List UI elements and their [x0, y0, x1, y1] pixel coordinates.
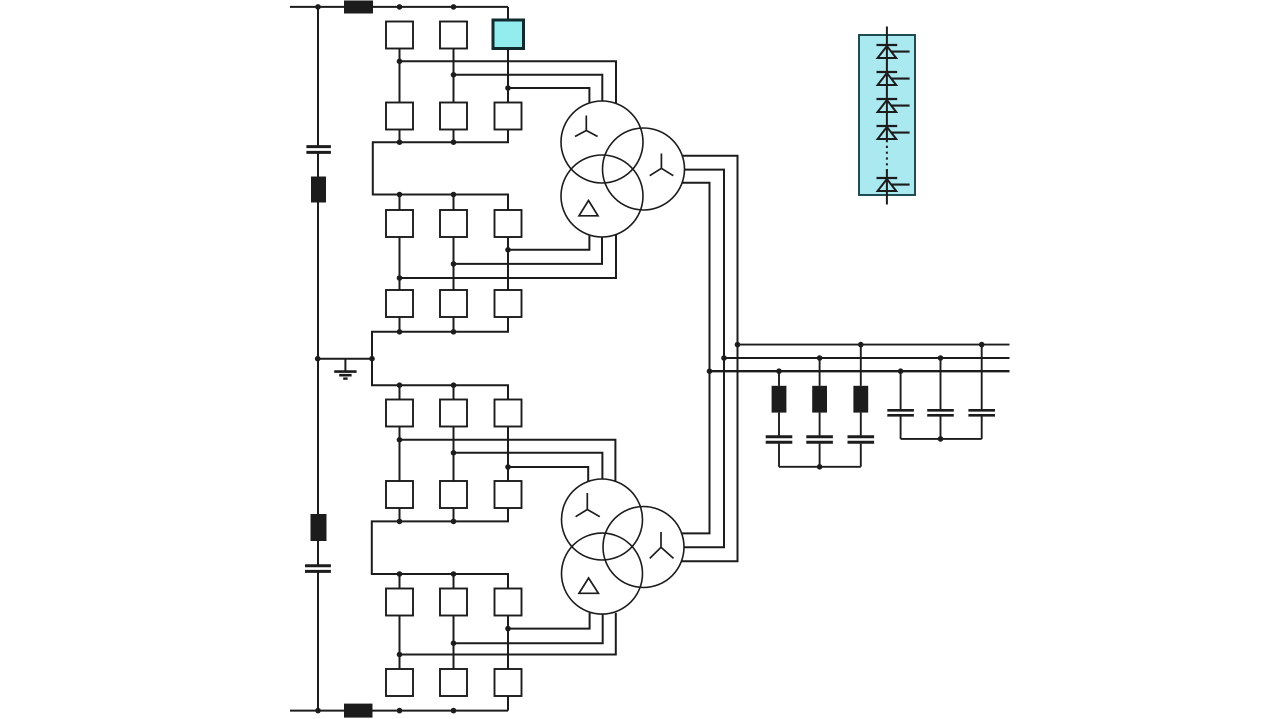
series thyristor T5 in valve detail [877, 178, 910, 191]
arrester F1 (upper left) [311, 177, 326, 203]
filter reactor F5L [853, 386, 868, 413]
T2 wye symbol [576, 493, 600, 517]
wire stem col2 bus-r5 [453, 385, 455, 399]
wire top DC bus drop to valve V3 [507, 7, 509, 20]
wire valve string upper [886, 27, 888, 140]
capacitor C2 plate A [305, 564, 331, 567]
wire AC phase c T1-T2 riser [682, 183, 710, 534]
wire row6 bottom bus [372, 508, 508, 589]
wire phase B lower-top [454, 453, 603, 479]
wire row2 bottom bus [373, 130, 508, 211]
thyristor valve V8 [440, 210, 467, 237]
node bottom bus col2 [451, 708, 457, 714]
filter capacitor F4C plate A [806, 435, 833, 438]
node top bus col1 [397, 4, 403, 10]
node r4 bus col2 [451, 329, 457, 335]
transformer T2 delta primary winding [562, 533, 643, 614]
node r7 bus col2 [451, 571, 457, 577]
shunt capacitor C3 plate B [887, 414, 914, 417]
node tap C upper-top [505, 85, 511, 91]
wire stem col3 r3-r4 [507, 237, 509, 290]
thyristor valve V7 [386, 210, 413, 237]
node r4 bus col1 [397, 329, 403, 335]
wire left DC rail upper [317, 7, 319, 146]
thyristor valve V15 [495, 400, 522, 427]
wire phase B upper-top [454, 75, 603, 101]
node r5 bus col2 [451, 382, 457, 388]
transformer T2 secondary winding [603, 507, 684, 588]
transformer T1 wye primary winding [561, 101, 643, 183]
valve detail block outline [859, 35, 915, 195]
filter capacitor F5C plate A [848, 435, 875, 438]
node tap B lower-top [451, 450, 457, 456]
thyristor valve V9 [495, 210, 522, 237]
node r3 bus col1 [397, 192, 403, 198]
wire filter F5 upper lead [860, 345, 862, 386]
wire filter F4 mid lead [819, 413, 821, 436]
filter reactor F3L [772, 386, 787, 413]
wire row5 top bus [372, 359, 508, 400]
T2 delta symbol [579, 578, 598, 593]
wire filter F4 upper lead [819, 358, 821, 386]
wire phase C lower-top [508, 467, 588, 481]
wire stem col2 r1-r2 [453, 49, 455, 103]
node tap B lower-bottom [451, 640, 457, 646]
node r2 bus col2 [451, 139, 457, 145]
filter capacitor F3C plate A [766, 435, 793, 438]
node mid neutral left [315, 356, 321, 362]
wire stem col1 r7-r8 [399, 616, 401, 670]
wire phase C lower-bottom [508, 613, 590, 629]
wire stem col2 r7-r8 [453, 616, 455, 670]
thyristor valve V18 [495, 481, 522, 508]
node shunt cap C3 on bus-c [898, 368, 904, 374]
node shunt cap C4 on bus-b [938, 355, 944, 361]
wire stem col2 r3-r4 [453, 237, 455, 290]
wire filter F3 upper lead [778, 371, 780, 386]
wire stem col2 r2-bus [453, 130, 455, 143]
T1 delta symbol [579, 201, 598, 216]
thyristor valve V24 [495, 669, 522, 696]
node filter F4 on bus-b [817, 355, 823, 361]
wire shunt cap C4 lower lead [940, 417, 942, 439]
capacitor C1 plate A [306, 145, 331, 148]
node filter F5 on bus-a [858, 342, 864, 348]
series thyristor T2 in valve detail [877, 72, 910, 85]
wire filter F4 lower lead [819, 444, 821, 467]
node r6 bus col2 [451, 519, 457, 525]
wire ground lead [344, 359, 346, 371]
node tap A upper-top [397, 59, 403, 65]
node filter F3 on bus-c [776, 368, 782, 374]
wire phase A upper-top [400, 61, 617, 103]
wire valve string dotted gap [886, 140, 888, 171]
shunt capacitor C4 plate B [927, 414, 954, 417]
smoothing reactor L1 (top) [344, 1, 373, 14]
wire stem col3 r5-r6 [507, 427, 509, 482]
arrester F2 (lower left) [311, 514, 327, 541]
wire stem col1 bus-r7 [399, 574, 401, 589]
transformer T1 secondary winding [603, 128, 685, 210]
node shunt cap C5 on bus-a [979, 342, 985, 348]
node r3 bus col2 [451, 192, 457, 198]
filter capacitor F4C plate B [806, 441, 833, 444]
node bus-b riser [721, 355, 727, 361]
thyristor valve V11 [440, 290, 467, 317]
wire row4 bottom bus [372, 317, 508, 359]
node tap B upper-top [451, 72, 457, 78]
wire stem col2 bus-r7 [453, 574, 455, 589]
wire AC phase b T1-T2 riser [684, 170, 724, 548]
wire phase C upper-bottom [508, 235, 589, 250]
shunt capacitor C5 plate A [968, 409, 995, 412]
wire stem col1 r3-r4 [399, 237, 401, 290]
thyristor valve V6 [495, 103, 522, 130]
node shunt group2 tie center [938, 436, 944, 442]
wire shunt cap C3 lower lead [900, 417, 902, 439]
node filter group1 tie center [817, 464, 823, 470]
wire stem col2 bus-r3 [453, 195, 455, 211]
node tap C lower-bottom [505, 626, 511, 632]
thyristor valve V19 [386, 589, 413, 616]
thyristor valve V17 [440, 481, 467, 508]
wire phase A lower-bottom [400, 613, 616, 655]
wire filter F5 mid lead [860, 413, 862, 436]
series thyristor T4 in valve detail [877, 126, 910, 139]
node top bus / left rail junction [315, 4, 321, 10]
thyristor valve V16 [386, 481, 413, 508]
thyristor valve V4 [386, 103, 413, 130]
wire phase B lower-bottom [454, 614, 603, 643]
series thyristor T1 in valve detail [877, 45, 910, 58]
wire stem col1 bus-r3 [399, 195, 401, 211]
wire bottom DC bus rise to valve V24 [507, 696, 509, 711]
node r2 bus col1 [397, 139, 403, 145]
thyristor valve V5 [440, 103, 467, 130]
wire stem col1 r1-r2 [399, 49, 401, 103]
wire top DC bus [290, 6, 508, 8]
wire phase A upper-bottom [400, 235, 617, 278]
wire phase C upper-top [508, 88, 589, 103]
wire filter F3 mid lead [778, 413, 780, 436]
thyristor valve V22 [386, 669, 413, 696]
thyristor valve V20 [440, 589, 467, 616]
capacitor C2 plate B [305, 570, 331, 573]
wire AC bus phase a [738, 344, 1010, 346]
thyristor valve V10 [386, 290, 413, 317]
smoothing reactor L2 (bottom) [344, 704, 373, 718]
node tap A upper-bottom [397, 275, 403, 281]
node bus-c riser [707, 368, 713, 374]
thyristor valve V3 (highlighted) [493, 20, 524, 49]
wire stem col3 r7-r8 [507, 616, 509, 670]
node r5 bus col1 [397, 382, 403, 388]
node mid neutral right [369, 356, 375, 362]
ground electrode [334, 372, 356, 379]
wire AC phase a T1-T2 riser [682, 156, 738, 562]
node tap A lower-bottom [397, 652, 403, 658]
wire filter group1 tie [779, 466, 861, 468]
wire stem col2 r4-bus [453, 317, 455, 332]
shunt capacitor C4 plate A [927, 409, 954, 412]
wire mid neutral [318, 358, 372, 360]
thyristor valve V1 [386, 22, 413, 49]
T1 secondary wye symbol [650, 154, 674, 176]
wire shunt cap C5 lower lead [981, 417, 983, 439]
wire filter F5 lower lead [860, 444, 862, 467]
wire AC bus phase b [724, 357, 1010, 359]
filter capacitor F3C plate B [766, 441, 793, 444]
wire shunt cap C4 upper lead [940, 358, 942, 409]
shunt capacitor C5 plate B [968, 414, 995, 417]
wire shunt group2 tie [901, 438, 982, 440]
wire stem col1 bus-r5 [399, 385, 401, 399]
shunt capacitor C3 plate A [887, 409, 914, 412]
wire AC bus phase c [710, 370, 1010, 372]
T2 secondary wye symbol [650, 532, 674, 558]
node tap C lower-top [505, 464, 511, 470]
capacitor C1 plate B [306, 151, 331, 154]
wire left DC rail middle [317, 152, 319, 565]
wire filter F3 lower lead [778, 444, 780, 467]
node bottom bus col1 [397, 708, 403, 714]
thyristor valve V21 [495, 589, 522, 616]
node bus-a riser [735, 342, 741, 348]
transformer T2 wye primary winding [562, 479, 643, 560]
wire stem col2 r5-r6 [453, 427, 455, 482]
thyristor valve V23 [440, 669, 467, 696]
wire phase A lower-top [400, 440, 616, 481]
T1 wye symbol [575, 116, 598, 137]
filter reactor F4L [812, 386, 827, 413]
wire stem col1 r6-bus [399, 508, 401, 521]
node tap A lower-top [397, 437, 403, 443]
wire stem col2 r6-bus [453, 508, 455, 521]
wire stem col1 r5-r6 [399, 427, 401, 482]
wire phase B upper-bottom [454, 237, 603, 264]
node r7 bus col1 [397, 571, 403, 577]
wire bottom DC bus [290, 710, 508, 712]
wire stem col1 r4-bus [399, 317, 401, 332]
thyristor valve V13 [386, 400, 413, 427]
wire stem col1 r2-bus [399, 130, 401, 143]
wire shunt cap C3 upper lead [900, 371, 902, 409]
thyristor valve V2 [440, 22, 467, 49]
node tap C upper-bottom [505, 247, 511, 253]
wire left DC rail lower [317, 571, 319, 710]
thyristor valve V12 [495, 290, 522, 317]
node bottom bus / left rail junction [315, 708, 321, 714]
thyristor valve V14 [440, 400, 467, 427]
filter capacitor F5C plate B [848, 441, 875, 444]
node tap B upper-bottom [451, 261, 457, 267]
node r6 bus col1 [397, 519, 403, 525]
wire shunt cap C5 upper lead [981, 345, 983, 410]
transformer T1 delta primary winding [561, 155, 643, 237]
wire stem col3 r1-r2 [507, 49, 509, 103]
node top bus col2 [451, 4, 457, 10]
wire valve string lower [886, 170, 888, 205]
series thyristor T3 in valve detail [877, 99, 910, 112]
